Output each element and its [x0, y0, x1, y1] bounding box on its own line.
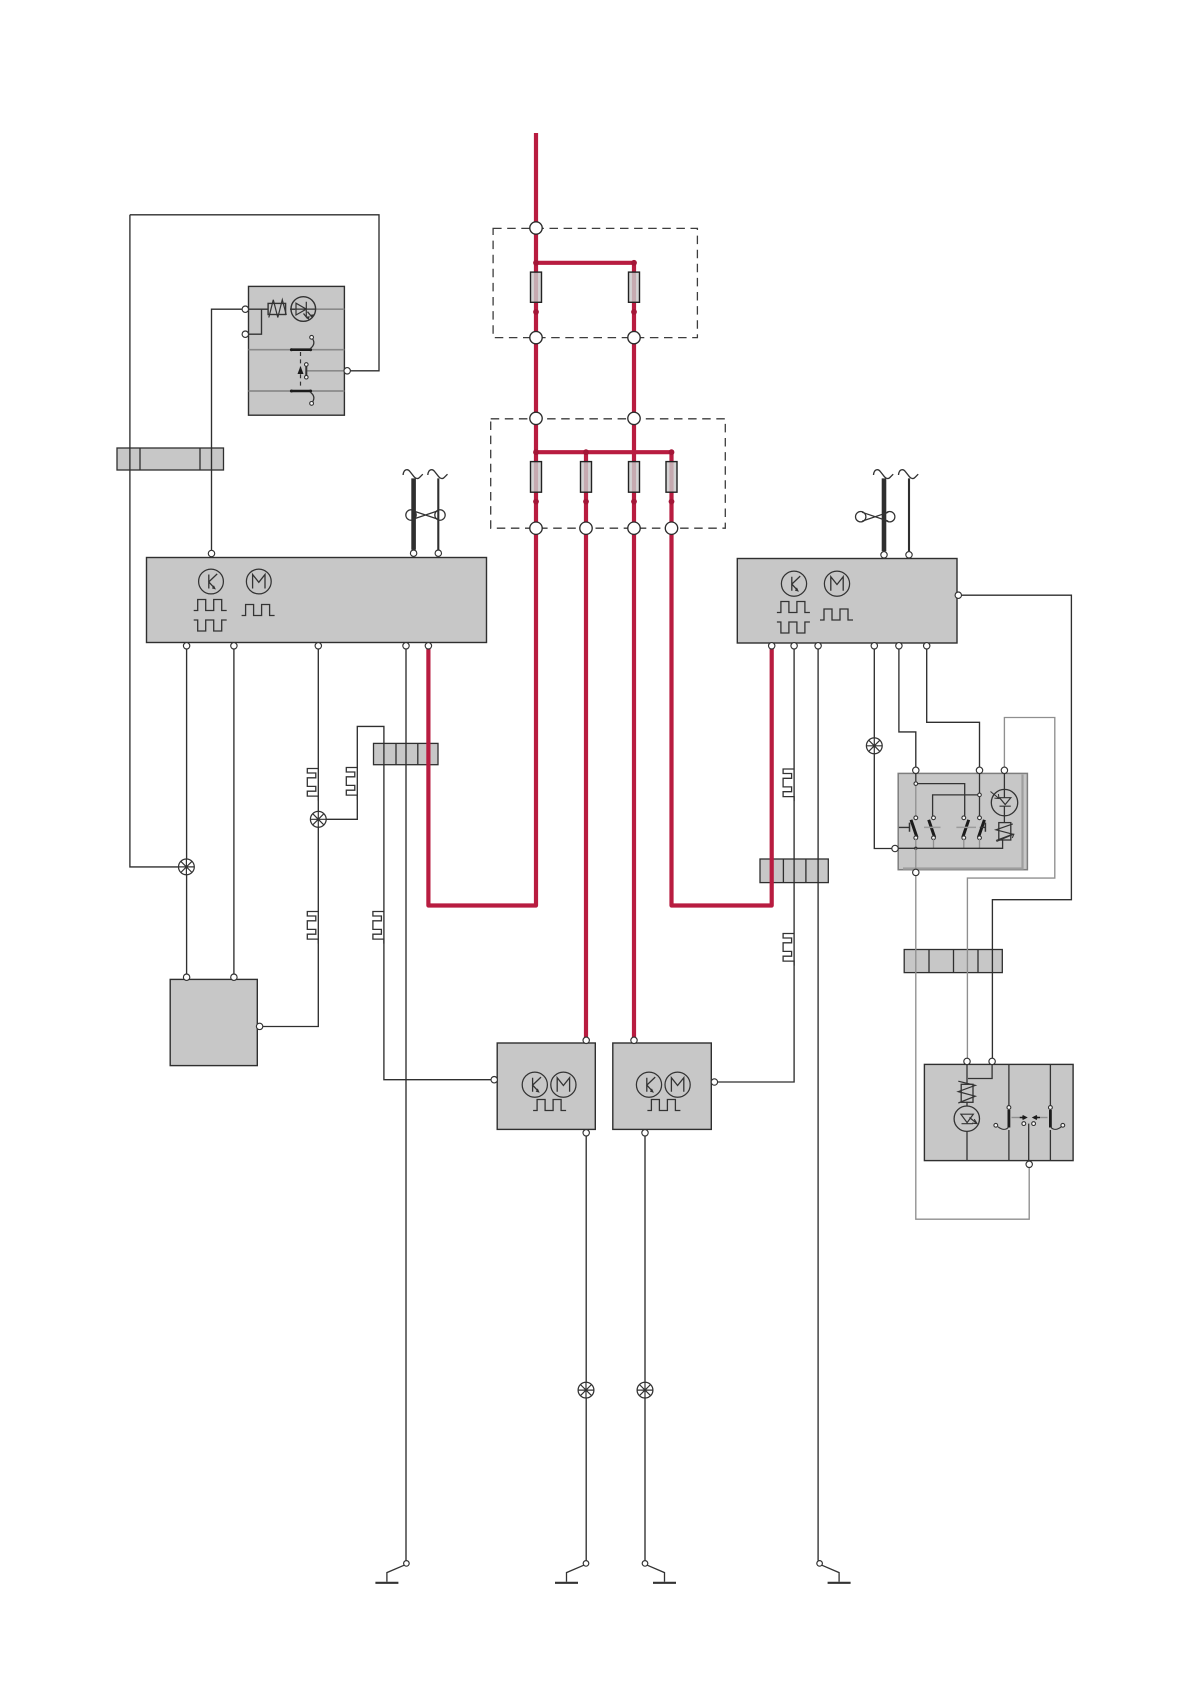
control unit ECU1	[147, 558, 487, 643]
terminal M2 right	[711, 1079, 717, 1085]
wire top loop to switch S1	[130, 215, 379, 371]
lamp L5 position	[637, 1382, 653, 1398]
wire supply to right ECU	[672, 528, 772, 905]
signal flag S-wire ECU1 pin3 upper	[307, 769, 318, 801]
terminal ECU2 right	[955, 592, 961, 598]
wire left feed down to lamp L1	[130, 215, 187, 867]
terminal ECU2 top2	[906, 552, 912, 558]
wire fuse F4 branch	[584, 452, 588, 528]
wire break wavy ECU2 thin	[899, 470, 919, 479]
switch blade upper	[290, 335, 314, 351]
actuator motor M2	[613, 1043, 712, 1129]
terminal S1 pin1	[242, 306, 248, 312]
wire tee to fuse F2	[536, 263, 634, 338]
actuator unit B1	[170, 979, 257, 1065]
wire battery feed main vertical	[534, 133, 538, 263]
fuse F5	[629, 462, 640, 493]
terminal K1 left	[892, 845, 898, 851]
wire supply to left ECU	[428, 528, 536, 905]
junction J7	[669, 449, 675, 455]
wire break wavy ECU2 thick	[874, 470, 894, 479]
lamp L4 position	[578, 1382, 594, 1398]
junction J2	[631, 260, 637, 266]
ground G4	[817, 1561, 851, 1583]
fuse F4	[581, 462, 592, 493]
switch blade lower	[290, 390, 314, 406]
junction J5	[533, 449, 539, 455]
terminal S1 pin3	[344, 368, 350, 374]
wire break wavy ECU1 thick	[403, 470, 423, 479]
wire fuse F1 leg	[534, 263, 538, 419]
connector C3	[760, 859, 828, 883]
junction J6	[583, 449, 589, 455]
terminal ECU1 top1	[208, 550, 214, 556]
connector C2	[374, 743, 439, 764]
terminal B1 pin3	[256, 1023, 262, 1029]
switch linkage	[298, 352, 309, 389]
headlamp unit E1	[924, 1064, 1073, 1160]
terminal K1 top1	[913, 767, 919, 773]
wire ECU2 side loop to headlamp unit E1	[962, 595, 1072, 1058]
signal flag connector C2 wire	[373, 912, 384, 944]
signal flag ECU1 pin3 lower	[307, 912, 318, 944]
terminal M1 top	[583, 1037, 589, 1043]
ground G1	[375, 1561, 409, 1583]
node N7	[580, 522, 592, 534]
terminal E1 top1	[964, 1058, 970, 1064]
twisted pair ECU1 thick lead	[411, 478, 416, 549]
twisted pair ECU1 thin lead	[437, 478, 439, 549]
rheostat R2	[996, 823, 1014, 842]
wire ECU2 pin4 to relay K1 via lamp L3	[874, 649, 892, 849]
lamp L2 indicator	[310, 811, 326, 827]
wire F2 node to lower box node	[632, 338, 636, 419]
signal flag ECU2 pin2 lower	[783, 934, 794, 966]
fuse F3	[531, 462, 542, 493]
terminal K1 bottom	[913, 869, 919, 875]
switch contacts K1	[899, 816, 986, 848]
node N9	[665, 522, 677, 534]
wire ECU2 pin2 to M2 side	[718, 649, 795, 1082]
node N4	[530, 412, 542, 424]
junction J10	[631, 499, 637, 505]
LED D1	[291, 297, 316, 322]
terminal ECU1 top3	[435, 550, 441, 556]
lamp L1 warning indicator	[179, 859, 195, 875]
wire fuse F6 branch	[669, 452, 673, 528]
terminal E1 bottom	[1026, 1161, 1032, 1167]
junction J9	[583, 499, 589, 505]
terminal M2 top	[631, 1037, 637, 1043]
twisted pair symbol ECU1	[406, 510, 445, 520]
fuse F6	[666, 462, 677, 493]
node N6	[530, 522, 542, 534]
wire ECU2 pin3 to ground G4	[817, 649, 819, 1561]
terminal ECU1 top2	[410, 550, 416, 556]
fuse holder box (dashed) upper	[493, 228, 697, 337]
wire supply to actuator M1	[584, 528, 588, 1040]
junction J1	[533, 260, 539, 266]
levelling switch E1-B	[1040, 1064, 1065, 1160]
resistor R3	[958, 1081, 975, 1103]
resistor R1	[268, 300, 286, 318]
lamp L3 indicator	[866, 738, 882, 754]
wire break wavy ECU1 thin	[428, 470, 448, 479]
node N3	[628, 331, 640, 343]
signal flag ECU2 pin2 upper	[783, 769, 794, 801]
terminal M1 left	[491, 1077, 497, 1083]
wire ECU1 pin1 to unit B1	[186, 649, 188, 979]
wire M2 bottom to ground G3	[644, 1136, 646, 1561]
node N8	[628, 522, 640, 534]
wire lower distribution tee	[536, 450, 672, 454]
terminal S1 pin2	[242, 331, 248, 337]
wire relay K1 bottom to E1 common	[916, 876, 1029, 1220]
terminal M2 bottom	[642, 1130, 648, 1136]
actuator motor M1	[497, 1043, 595, 1129]
junction J4	[631, 309, 637, 315]
node N2	[530, 331, 542, 343]
junction J8	[533, 499, 539, 505]
twisted pair ECU2 thin lead	[908, 478, 910, 551]
wire fuse F3 branch	[534, 418, 538, 528]
connector C4	[904, 950, 1002, 973]
wire ECU1 pin2 to unit B1	[233, 649, 235, 979]
motor drive arrows E1	[1020, 1116, 1041, 1161]
signal flag loop wire	[346, 768, 357, 800]
node N5	[628, 412, 640, 424]
wire ECU1 pin3 to unit B1 side	[263, 649, 319, 1027]
terminal M1 bottom	[583, 1130, 589, 1136]
twisted pair ECU2 thick lead	[882, 478, 887, 551]
terminal B1 pin1	[183, 974, 189, 980]
terminal ECU1 bottom pins	[183, 643, 431, 649]
junction J11	[669, 499, 675, 505]
levelling switch E1-A	[994, 1064, 1019, 1160]
terminal E1 top2	[989, 1058, 995, 1064]
terminal ECU2 bottom pins	[769, 643, 930, 649]
control unit ECU2	[737, 559, 957, 644]
headlight switch module K1	[895, 773, 1027, 869]
wire ECU2 pin5 to relay K1 top1	[899, 649, 916, 767]
headlamp levelling switch S1	[245, 286, 344, 415]
junction J3	[533, 309, 539, 315]
photo sensor D2	[991, 773, 1018, 822]
fuse holder box (dashed) lower	[491, 419, 726, 528]
wire M1 bottom to ground G2	[585, 1136, 587, 1561]
twisted pair symbol ECU2	[856, 512, 895, 522]
fuse F1	[531, 272, 542, 302]
terminal ECU2 top1	[881, 552, 887, 558]
wire ECU1 pin4 to ground G1	[405, 649, 407, 1561]
ground G3	[642, 1561, 676, 1583]
terminal K1 top2	[976, 767, 982, 773]
wire fuse F5 branch	[632, 418, 636, 528]
wire supply to actuator M2	[632, 528, 636, 1040]
terminal B1 pin2	[231, 974, 237, 980]
terminal K1 top3	[1001, 767, 1007, 773]
LED D3	[954, 1106, 979, 1131]
node N1	[530, 222, 542, 234]
wire switch S1 pin1 to ECU1	[212, 309, 246, 550]
ground G2	[555, 1561, 589, 1583]
connector C1	[117, 448, 224, 470]
wire lamp L2 loop to connector C2	[318, 726, 497, 1079]
wire relay K1 top3 gray loop to E1	[967, 718, 1054, 1059]
wire ECU2 pin6 to relay K1 top2	[927, 649, 980, 767]
fuse F2	[629, 272, 640, 302]
